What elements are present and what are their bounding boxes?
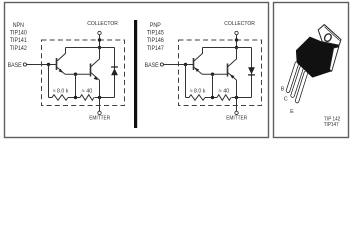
wire base lead-in (PNP) — [164, 64, 193, 66]
resistor R4 ~40 (PNP) — [217, 95, 231, 101]
package side face strip — [330, 47, 339, 71]
package lead E — [297, 73, 306, 101]
svg-text:TIP147: TIP147 — [324, 122, 339, 129]
junction collector at dashed edge (NPN) — [98, 38, 101, 41]
wire bottom rail to diode (PNP) — [232, 97, 252, 99]
svg-text:≈ 40: ≈ 40 — [82, 88, 93, 94]
junction emitter node (PNP) — [235, 96, 238, 99]
transistor Q3 (PNP driver) — [194, 48, 203, 75]
wire internal node down to rail (PNP) — [212, 74, 214, 97]
diode D1 (NPN) — [114, 48, 116, 98]
junction base node (NPN) — [47, 63, 50, 66]
schematic frame (circuits box) — [5, 3, 269, 138]
package mounting tab — [318, 25, 341, 46]
resistor R2 ~40 (NPN) — [80, 95, 94, 101]
junction R3/R4 node — [211, 96, 214, 99]
svg-text:BASE: BASE — [145, 63, 159, 69]
svg-text:C: C — [284, 96, 288, 102]
label PNP device list — [147, 23, 164, 52]
svg-text:TIP146: TIP146 — [147, 38, 164, 44]
label NPN device list — [10, 23, 27, 52]
junction collector at rail (PNP) — [235, 46, 238, 49]
wire Q1 emitter to Q2 base — [65, 73, 90, 75]
junction collector at dashed edge (PNP) — [235, 38, 238, 41]
transistor Q1 (NPN driver) — [57, 48, 66, 75]
wire between resistors (PNP) — [205, 97, 217, 99]
svg-text:TIP142: TIP142 — [10, 46, 27, 52]
junction base node (PNP) — [184, 63, 187, 66]
junction R1/R2 node — [74, 96, 77, 99]
transistor Q4 (PNP output) — [228, 48, 237, 81]
svg-text:NPN: NPN — [13, 23, 24, 29]
junction emitter node (NPN) — [98, 96, 101, 99]
package lead B — [288, 63, 297, 90]
svg-text:TIP147: TIP147 — [147, 46, 164, 52]
svg-text:≈ 40: ≈ 40 — [219, 88, 230, 94]
svg-text:B: B — [281, 87, 285, 93]
svg-text:TIP141: TIP141 — [10, 38, 27, 44]
wire Q3 emitter to Q4 base — [202, 73, 227, 75]
junction collector at rail (NPN) — [98, 46, 101, 49]
divider bar between NPN and PNP panels — [134, 20, 137, 128]
wire bottom rail to diode (NPN) — [95, 97, 115, 99]
wire internal node down to rail (NPN) — [75, 74, 77, 97]
svg-text:≈ 8.0 k: ≈ 8.0 k — [190, 88, 206, 94]
svg-text:EMITTER: EMITTER — [226, 115, 247, 121]
dashed device outline (NPN) — [42, 40, 125, 106]
wire base lead-in (NPN) — [27, 64, 56, 66]
svg-text:≈ 8.0 k: ≈ 8.0 k — [53, 88, 69, 94]
wire collector rail (PNP) — [203, 47, 252, 49]
svg-text:COLLECTOR: COLLECTOR — [87, 21, 118, 27]
svg-text:TIP145: TIP145 — [147, 30, 164, 36]
wire collector drop (NPN) — [99, 35, 101, 48]
svg-text:BASE: BASE — [8, 63, 22, 69]
package body (black plastic) — [296, 37, 339, 78]
svg-text:COLLECTOR: COLLECTOR — [224, 21, 255, 27]
wire collector drop (PNP) — [236, 35, 238, 48]
package frame (right box) — [274, 3, 349, 138]
dashed device outline (PNP) — [179, 40, 262, 106]
svg-text:E: E — [290, 109, 294, 115]
wire collector rail (NPN) — [66, 47, 115, 49]
wire base node down to R1 — [48, 65, 50, 98]
diode D2 (PNP) — [251, 48, 253, 98]
resistor R1 ~8.0k (NPN) — [49, 95, 69, 101]
wire base node down to R3 — [185, 65, 187, 98]
svg-text:TIP140: TIP140 — [10, 30, 27, 36]
node EMITTER terminal (PNP) — [236, 98, 238, 112]
svg-text:EMITTER: EMITTER — [89, 115, 110, 121]
wire between resistors (NPN) — [68, 97, 80, 99]
wire Q2 emitter down (NPN) — [99, 80, 101, 97]
node EMITTER terminal (NPN) — [99, 98, 101, 112]
junction internal node (Q1/Q2/R1) — [74, 73, 77, 76]
package tab edge crease — [324, 27, 339, 41]
junction internal node (Q3/Q4/R3) — [211, 73, 214, 76]
svg-text:PNP: PNP — [150, 23, 161, 29]
package mounting hole — [323, 33, 332, 43]
package lead C — [293, 68, 302, 95]
wire Q4 emitter down (PNP) — [236, 80, 238, 97]
resistor R3 ~8.0k (PNP) — [186, 95, 206, 101]
transistor Q2 (NPN output) — [91, 48, 100, 81]
